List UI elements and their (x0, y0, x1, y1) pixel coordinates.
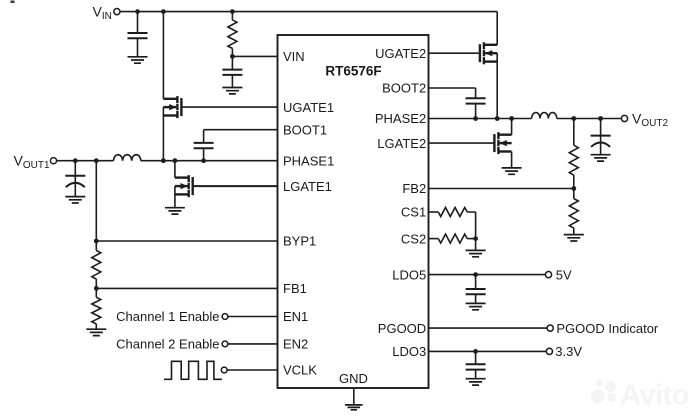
wire to VIN pin (232, 55, 277, 57)
capacitor C2 (222, 56, 242, 87)
terminal 3.3V (546, 348, 552, 354)
wire BYP1 pin (96, 240, 277, 242)
ground CS network (466, 250, 486, 256)
svg-text:EN2: EN2 (283, 337, 308, 352)
wire Q1 source to PHASE1 (162, 107, 164, 161)
wire BOOT1 pin (204, 129, 278, 131)
svg-text:UGATE1: UGATE1 (283, 100, 334, 115)
ground GND pin (345, 405, 363, 410)
ground R7 (564, 235, 584, 241)
wire PHASE2 line (429, 118, 622, 120)
capacitor C9 (LDO3) (466, 351, 486, 378)
svg-text:5V: 5V (556, 267, 572, 282)
node junction PHASE1 at Q1 source (161, 158, 166, 163)
wire LDO3 pin (429, 350, 547, 352)
wire Q1 drain from VIN rail (162, 12, 164, 99)
svg-text:LGATE1: LGATE1 (283, 179, 332, 194)
capacitor C6 (BOOT2) (466, 88, 486, 119)
wire Q4 source to ground (511, 152, 513, 168)
wire UGATE2 pin to Q2 gate (429, 52, 480, 54)
svg-text:PGOOD Indicator: PGOOD Indicator (556, 321, 659, 336)
node junction on VIN rail at R1 (230, 9, 235, 14)
ground C3 (65, 197, 85, 203)
node FB1 junction (94, 286, 99, 291)
resistor R2 (BYP1 to FB1) (92, 241, 101, 288)
svg-text:BOOT1: BOOT1 (283, 122, 327, 137)
ground C1 (128, 57, 148, 63)
svg-text:Channel 1 Enable: Channel 1 Enable (116, 309, 219, 324)
node junction on VIN rail at C1 (135, 9, 140, 14)
node VOUT2 at C7 (598, 116, 603, 121)
svg-text:VIN: VIN (93, 4, 112, 23)
node FB2 junction (571, 186, 576, 191)
node PHASE2 at C6 (473, 116, 478, 121)
node BYP1 junction (94, 239, 99, 244)
resistor R3 (FB1 to ground) (92, 288, 101, 329)
wire feedback branch down to BYP1 (95, 161, 97, 241)
wire VOUT1 / PHASE1 line (57, 160, 278, 162)
svg-text:LDO3: LDO3 (392, 344, 426, 359)
resistor R6 (VOUT2 to FB2) (569, 119, 578, 189)
wire GND pin (353, 388, 355, 405)
capacitor C5 (BOOT1) (194, 130, 214, 161)
IC U1 RT6576F body (278, 35, 429, 388)
svg-text:BYP1: BYP1 (283, 234, 316, 249)
inductor L2 (532, 112, 557, 118)
node EN1 terminal (222, 314, 228, 320)
svg-text:UGATE2: UGATE2 (375, 46, 426, 61)
svg-text:VIN: VIN (283, 49, 305, 64)
svg-text:CS1: CS1 (401, 205, 426, 220)
node junction PHASE1 at C5 (201, 158, 206, 163)
svg-text:FB1: FB1 (283, 281, 307, 296)
inductor L1 (114, 155, 141, 161)
wire Q3 drain from PHASE1 (174, 161, 176, 178)
terminal VIN (114, 9, 120, 15)
node LDO5 at C8 (473, 272, 478, 277)
ground C7 (591, 155, 611, 161)
svg-text:PHASE1: PHASE1 (283, 153, 334, 168)
svg-text:BOOT2: BOOT2 (382, 81, 426, 96)
terminal VOUT1 (50, 158, 56, 164)
wire PGOOD pin (429, 327, 548, 329)
ground R3 (86, 329, 106, 335)
scan artifact dot top-left (11, 1, 15, 4)
wire Q4 drain from PHASE2 (511, 119, 513, 135)
capacitor C7 (VOUT2 output, polarized) (591, 119, 611, 155)
capacitor C1 (VIN bypass) (128, 12, 148, 57)
clock waveform symbol (164, 361, 222, 379)
wire FB2 pin (429, 188, 574, 190)
ground C8 (466, 303, 486, 309)
wire EN2 pin (228, 343, 278, 345)
node VCLK terminal (221, 367, 227, 373)
transistor Q4 (LGATE2 low-side MOSFET, gate on left) (494, 132, 511, 154)
wire CS network to ground (475, 239, 477, 251)
terminal 5V (545, 272, 551, 278)
svg-text:GND: GND (339, 371, 368, 386)
wire Q3 source to ground (174, 186, 176, 207)
svg-text:RT6576F: RT6576F (325, 64, 381, 79)
resistor R7 (FB2 to ground) (569, 189, 578, 235)
node CS2 junction (473, 236, 478, 241)
svg-text:VOUT2: VOUT2 (632, 110, 668, 128)
watermark Avito logo (591, 380, 689, 412)
wire VCLK pin (227, 369, 277, 371)
svg-text:LDO5: LDO5 (392, 267, 426, 282)
wire EN1 pin (228, 316, 278, 318)
wire BOOT2 pin (429, 87, 476, 89)
svg-text:PHASE2: PHASE2 (375, 111, 426, 126)
svg-text:EN1: EN1 (283, 309, 308, 324)
wire LDO5 pin (429, 274, 546, 276)
terminal VOUT2 (621, 115, 627, 121)
ground C9 (466, 379, 486, 385)
wire FB1 pin (96, 287, 277, 289)
node PHASE2 at Q4 drain (509, 116, 514, 121)
transistor Q3 (LGATE1 low-side MOSFET, gate on right) (175, 175, 193, 197)
ground Q4 source (502, 168, 522, 174)
capacitor C3 (VOUT1 output, polarized) (65, 161, 85, 197)
wire LGATE1 pin to Q3 gate (193, 185, 278, 187)
transistor Q2 (UGATE2 high-side MOSFET, gate on left) (480, 42, 497, 64)
node VOUT2 at R6 (571, 116, 576, 121)
node junction VOUT1 at C3 (73, 158, 78, 163)
node PHASE2 at Q2 source (495, 116, 500, 121)
svg-text:LGATE2: LGATE2 (377, 136, 426, 151)
svg-text:VOUT1: VOUT1 (14, 153, 50, 172)
svg-text:3.3V: 3.3V (555, 344, 582, 359)
resistor R1 (VIN to IC VIN pin) (228, 12, 237, 57)
svg-text:PGOOD: PGOOD (378, 321, 426, 336)
wire VIN rail top (120, 11, 497, 13)
node LDO3 at C9 (473, 349, 478, 354)
node junction PHASE1 at Q3 drain (173, 158, 178, 163)
capacitor C8 (LDO5) (466, 275, 486, 304)
ground Q3 source (165, 208, 185, 214)
wire Q2 source to PHASE2 (496, 53, 498, 118)
transistor Q1 (UGATE1 high-side MOSFET, gate on right) (163, 96, 181, 118)
svg-text:Channel 2 Enable: Channel 2 Enable (116, 337, 219, 352)
ground C2 (222, 88, 242, 94)
node R1/C2/VIN pin junction (230, 54, 235, 59)
node EN2 terminal (222, 341, 228, 347)
wire VIN rail down to Q2 drain (496, 12, 498, 45)
wire LGATE2 pin to Q4 gate (429, 142, 495, 144)
resistor R5 (CS2) (429, 234, 476, 243)
wire UGATE1 pin to Q1 gate (181, 106, 277, 108)
terminal PGOOD (547, 325, 553, 331)
svg-text:Avito: Avito (620, 380, 689, 412)
resistor R4 (CS1) (429, 208, 476, 239)
node junction on VIN rail at Q1 drain (161, 9, 166, 14)
svg-text:VCLK: VCLK (283, 363, 317, 378)
node junction VOUT1 at feedback branch (94, 158, 99, 163)
svg-text:FB2: FB2 (402, 181, 426, 196)
svg-text:CS2: CS2 (401, 231, 426, 246)
